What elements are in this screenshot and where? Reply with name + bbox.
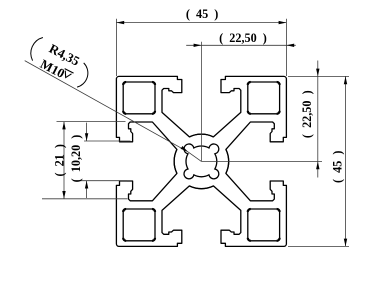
vertical centerline bbox=[200, 42, 202, 162]
svg-text:( 22,50 ): ( 22,50 ) bbox=[219, 31, 267, 45]
svg-text:( 21 ): ( 21 ) bbox=[52, 144, 66, 177]
profile outer contour with T-slots bbox=[116, 76, 286, 246]
extension line (21) upper bbox=[57, 121, 126, 123]
square hole bottom-left block bbox=[123, 209, 155, 241]
central hub circle arcs bbox=[174, 134, 229, 189]
svg-text:( 10,20 ): ( 10,20 ) bbox=[69, 135, 83, 183]
center bore M10 clover hole bbox=[184, 144, 219, 179]
dimension line (45) right bbox=[345, 76, 347, 246]
leader tail to center bbox=[188, 152, 202, 162]
extension line (10,20) lower bbox=[74, 180, 127, 182]
svg-text:( 45 ): ( 45 ) bbox=[186, 7, 219, 21]
horizontal centerline bbox=[201, 160, 322, 162]
extension line at top-right profile edge bbox=[288, 75, 349, 77]
dimension line (22,50) top bbox=[186, 44, 296, 46]
leader line R4,35/M10 bbox=[25, 61, 188, 152]
svg-text:( 22,50 ): ( 22,50 ) bbox=[300, 90, 314, 138]
extension line at bottom-right profile edge bbox=[288, 245, 349, 247]
extension line right of top dims bbox=[285, 19, 287, 76]
arrow tail upper (10,20) bbox=[86, 123, 88, 141]
label R4,35 M10 annotation bbox=[31, 38, 88, 88]
extension line (10,20) upper bbox=[84, 140, 131, 142]
leader arrowhead bbox=[181, 146, 188, 152]
svg-text:( 45 ): ( 45 ) bbox=[330, 151, 344, 184]
dimension line (45) top bbox=[116, 22, 286, 24]
arrow tail lower (10,20) bbox=[86, 181, 88, 198]
square hole top-right block bbox=[248, 82, 280, 114]
dimension line (21) left bbox=[63, 122, 65, 199]
extension line left of top 45 dim bbox=[115, 19, 117, 76]
square hole top-left block bbox=[123, 82, 155, 114]
extension line (21) lower bbox=[42, 198, 128, 200]
square hole bottom-right block bbox=[248, 209, 280, 241]
dimension line (22,50) right bbox=[317, 61, 319, 178]
